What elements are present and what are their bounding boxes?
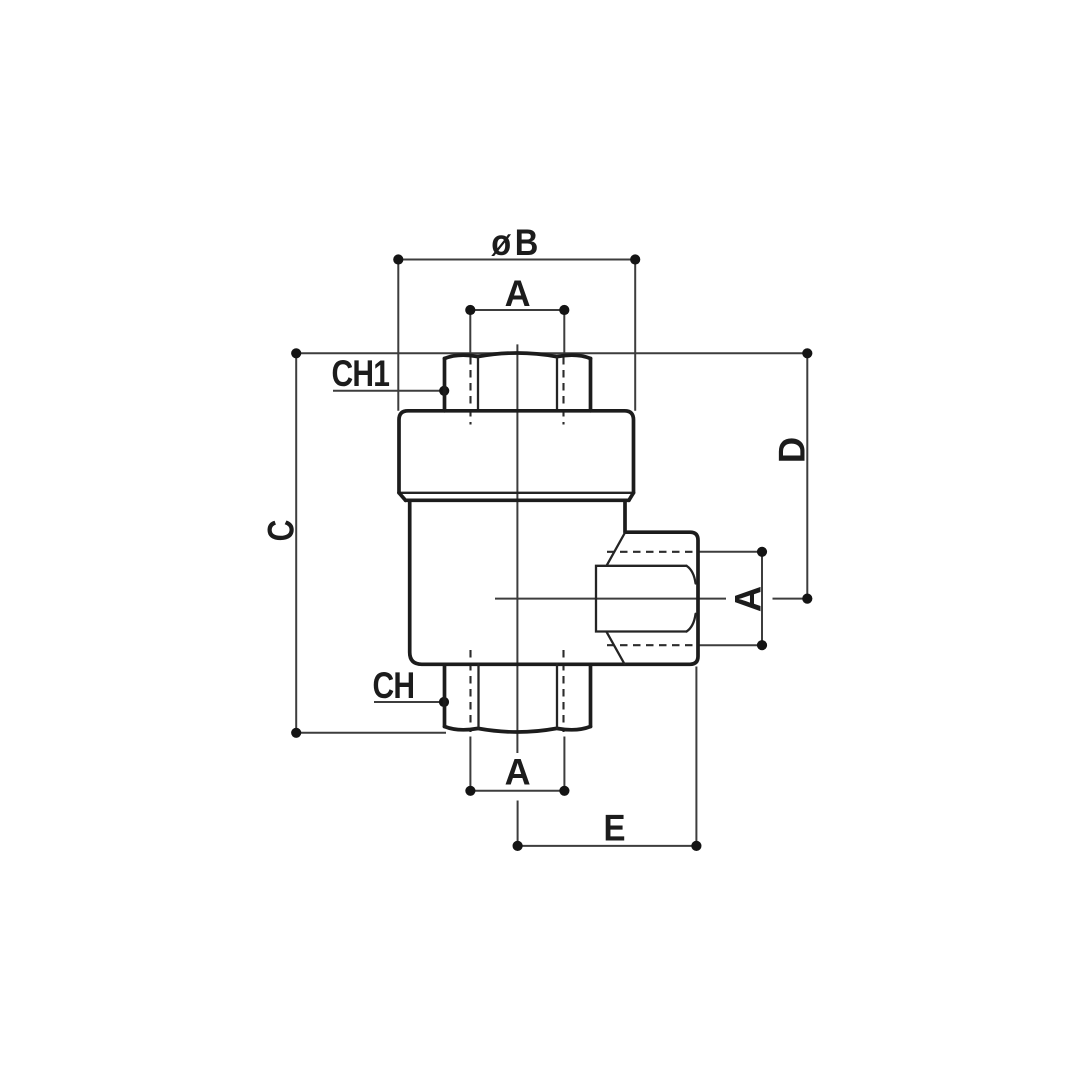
top cap bottom band thin line [399, 492, 634, 494]
dimension A (bottom) endpoint dots [465, 786, 475, 796]
dimension øB line [398, 259, 635, 261]
bottom hex nut thread dashed lines [469, 650, 471, 732]
dimension A (right) bottom extension line [698, 644, 762, 646]
svg-text:A: A [505, 272, 531, 314]
svg-text:E: E [603, 807, 625, 848]
top hex nut outline [443, 359, 447, 411]
top extension line (top of part, C/D datum) [296, 352, 807, 354]
dimension A (bottom) line [470, 790, 564, 792]
dimension E endpoint dots [513, 841, 523, 851]
dimension E right extension line [695, 667, 697, 846]
dimension A (bottom) left extension line [469, 737, 471, 791]
dimension øB right extension line [634, 260, 636, 411]
dimension C bottom extension line [296, 732, 446, 734]
dimension A (top) endpoint dots [465, 305, 475, 315]
leader CH1 (top nut wrench size) [333, 390, 444, 392]
top cap bottom band chamfers [399, 493, 406, 501]
dimension A (bottom) right extension line [563, 737, 565, 791]
dimension A (top) line [470, 309, 564, 311]
svg-text:C: C [260, 520, 302, 542]
svg-text:D: D [771, 437, 813, 463]
dimension A (right, port) line [761, 552, 763, 645]
side port thread dashed lines [607, 551, 698, 553]
dimension A (top) right extension line [563, 310, 565, 354]
dimension C endpoint dots [291, 348, 301, 358]
svg-text:CH: CH [373, 665, 415, 707]
top cap (bonnet) outline [399, 411, 634, 493]
dimension øB left extension line [397, 260, 399, 411]
svg-text:CH1: CH1 [332, 353, 390, 395]
bottom hex nut face lines [477, 664, 479, 728]
dimension E line [518, 845, 697, 847]
side port hex flat face [596, 566, 687, 632]
dimension A (right) top extension line [698, 551, 762, 553]
top cap bottom band edge [406, 498, 629, 502]
horizontal centerline segment to D line [773, 598, 808, 600]
vertical centerline of valve body [516, 344, 518, 753]
vertical centerline lower segment to E dot [517, 801, 519, 846]
dimension øB endpoint dots [393, 254, 403, 264]
dimension D line (top to port axis) [806, 353, 808, 598]
leader CH (bottom nut wrench size) [374, 701, 444, 703]
svg-text:A: A [727, 586, 769, 612]
dimension A (top) left extension line [469, 310, 471, 354]
top hex nut thread dashed lines [469, 357, 471, 425]
horizontal centerline of side port [495, 598, 726, 600]
bottom hex nut outline [443, 664, 447, 726]
svg-text:A: A [505, 751, 531, 793]
dimension C line (overall height) [295, 353, 297, 733]
top hex nut face lines [477, 357, 479, 411]
dimension D endpoint dots [802, 348, 812, 358]
svg-text:øB: øB [491, 222, 541, 264]
dimension A (right) endpoint dots [757, 547, 767, 557]
main body and side port silhouette [410, 500, 698, 664]
side port hex end chamfer arcs [687, 566, 696, 584]
side port hex chamfer diagonals [607, 534, 625, 566]
